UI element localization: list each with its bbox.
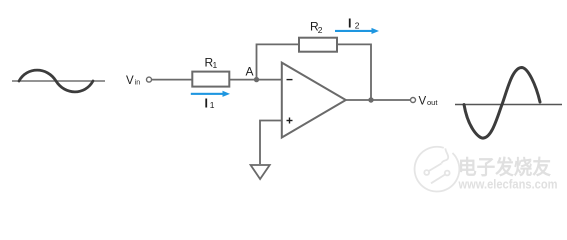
op-amp minus sign [287,79,293,81]
output terminal [411,98,416,103]
svg-text:2: 2 [355,21,360,31]
current arrow I1 [191,91,230,97]
wire plus input to ground [260,121,282,165]
svg-text:I: I [348,17,351,31]
svg-text:V: V [419,96,427,108]
svg-text:2: 2 [318,25,323,35]
resistor R1 [192,72,229,87]
input terminal [147,77,152,82]
svg-text:I: I [205,97,208,111]
svg-text:in: in [135,79,141,86]
svg-text:www.elecfans.com: www.elecfans.com [458,178,558,192]
wire R1 to op-amp minus input [229,79,282,81]
op-amp plus sign [287,118,293,124]
input waveform baseline [12,80,105,82]
input waveform sine [19,70,93,92]
svg-text:out: out [427,98,438,107]
wire R2 to output node [337,44,371,100]
resistor R2 [299,38,337,52]
wire node A up to feedback [257,44,300,79]
svg-text:V: V [126,75,134,87]
node A dot [254,77,259,82]
wire Vin to R1 [152,79,193,81]
op-amp U1 [282,63,346,138]
svg-text:电子发烧友: 电子发烧友 [458,155,551,179]
wire op-amp output to Vout [346,99,411,101]
svg-text:A: A [246,64,254,78]
svg-text:1: 1 [210,100,215,110]
svg-text:1: 1 [213,60,218,70]
output waveform baseline [455,104,562,106]
watermark logo circle [415,147,460,192]
ground [251,165,270,179]
output junction dot [368,97,373,102]
current arrow I2 [335,28,379,34]
output waveform sine [464,68,540,139]
